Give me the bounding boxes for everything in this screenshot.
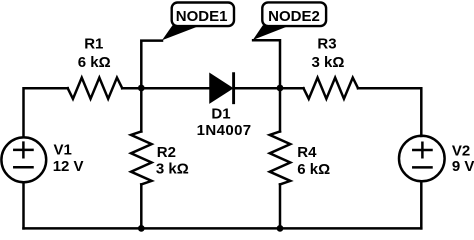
resistor R4 xyxy=(270,132,291,185)
wire R3 to V2 xyxy=(358,88,421,136)
wire top-left (V1 to R1) xyxy=(24,88,68,137)
voltage source V1 xyxy=(1,137,46,182)
svg-text:NODE2: NODE2 xyxy=(268,8,320,25)
svg-text:R1: R1 xyxy=(84,36,103,53)
svg-text:1N4007: 1N4007 xyxy=(197,122,252,139)
wire V1 bottom xyxy=(22,183,25,229)
svg-text:V2: V2 xyxy=(452,143,470,160)
wire node2 stub xyxy=(253,40,280,88)
svg-text:3 kΩ: 3 kΩ xyxy=(156,160,189,177)
svg-text:9 V: 9 V xyxy=(452,158,474,175)
wire node1 stub xyxy=(141,41,162,88)
callout NODE2 xyxy=(253,2,326,40)
voltage source V2 xyxy=(399,136,445,182)
svg-text:NODE1: NODE1 xyxy=(176,8,228,25)
resistor R1 xyxy=(68,78,123,99)
svg-text:12 V: 12 V xyxy=(53,158,84,175)
diode D1 xyxy=(211,74,234,103)
svg-text:6 kΩ: 6 kΩ xyxy=(78,54,111,71)
junction node2 bottom xyxy=(277,225,284,232)
wire R4 to bottom xyxy=(279,184,282,228)
junction node1 top xyxy=(138,85,145,92)
wire R1 to D1 xyxy=(122,87,210,90)
svg-text:6 kΩ: 6 kΩ xyxy=(297,161,330,178)
callout NODE1 xyxy=(162,3,234,41)
svg-text:R4: R4 xyxy=(297,144,317,161)
svg-text:R2: R2 xyxy=(157,144,176,161)
wire node2 to R4 xyxy=(279,88,282,132)
svg-text:3 kΩ: 3 kΩ xyxy=(312,54,345,71)
wire D1 to R3 xyxy=(235,87,304,90)
wire V2 bottom xyxy=(420,181,423,228)
svg-text:D1: D1 xyxy=(211,106,230,123)
svg-text:V1: V1 xyxy=(54,141,72,158)
junction node2 top xyxy=(277,85,284,92)
resistor R2 xyxy=(131,132,152,185)
wire node1 to R2 xyxy=(140,88,143,132)
junction node1 bottom xyxy=(138,225,145,232)
resistor R3 xyxy=(304,78,359,99)
wire R2 to bottom xyxy=(140,184,143,228)
wire bottom rail xyxy=(24,227,422,230)
svg-text:R3: R3 xyxy=(317,36,336,53)
